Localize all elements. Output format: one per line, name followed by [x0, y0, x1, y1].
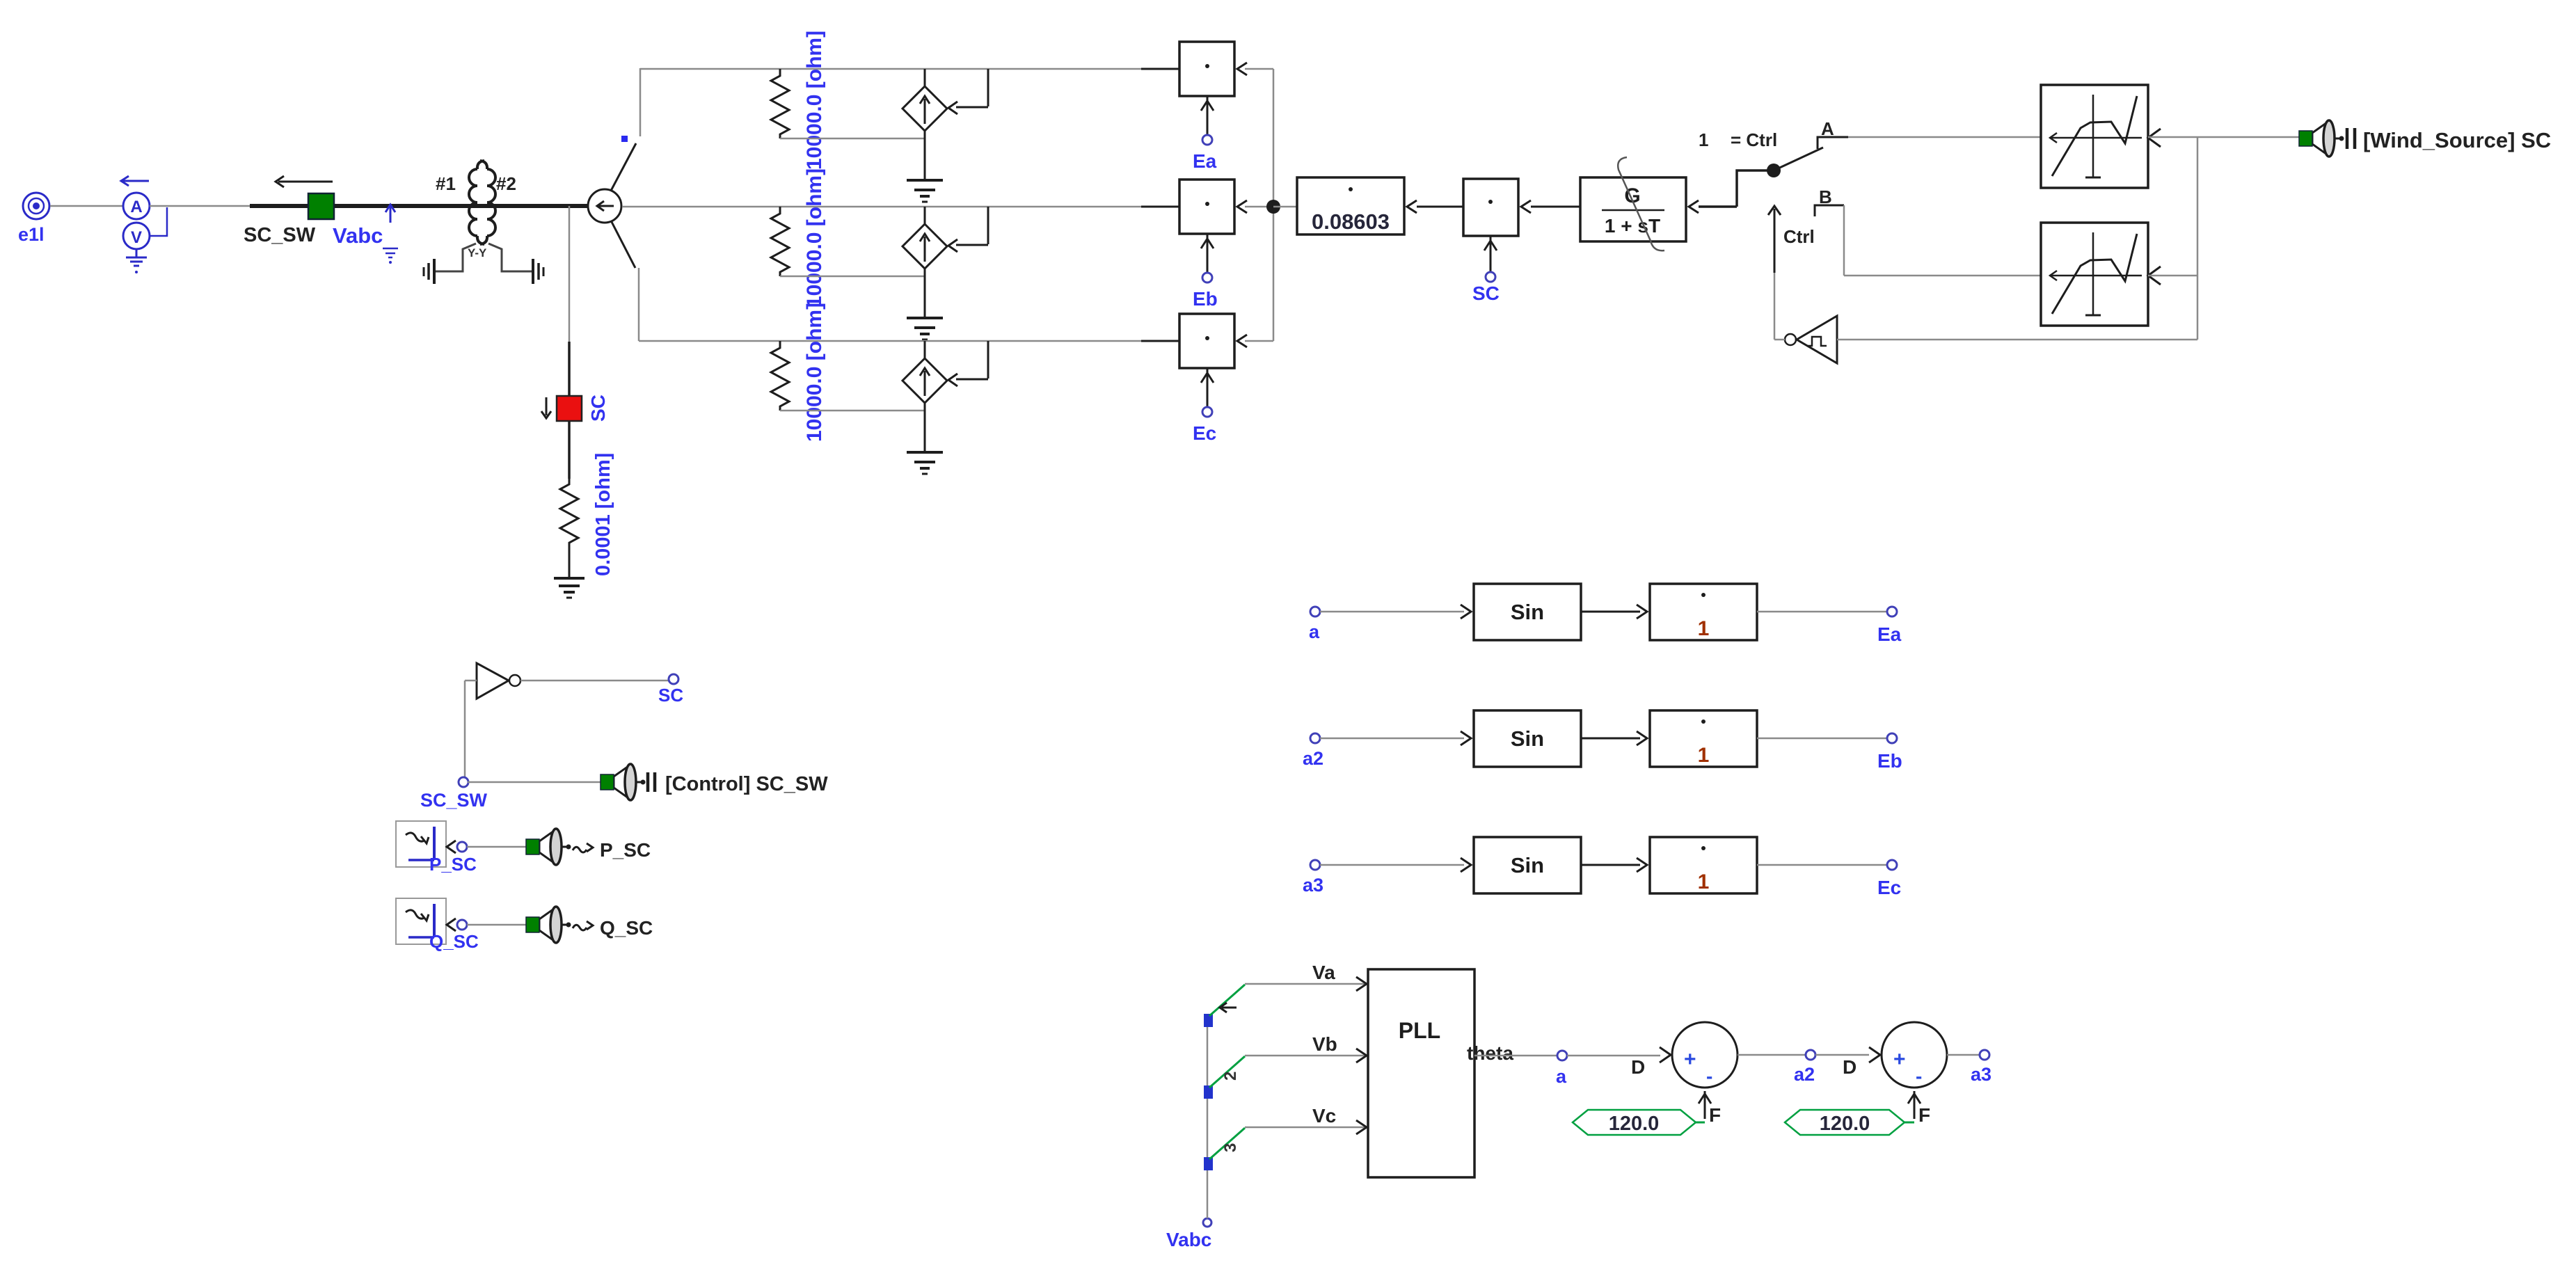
- wire: [568, 342, 571, 396]
- svg-text:2: 2: [1221, 1072, 1240, 1081]
- svg-text:SC: SC: [658, 685, 683, 706]
- wire: [1848, 136, 2041, 138]
- wire: [1320, 858, 1471, 872]
- wire: [468, 781, 601, 783]
- multiplier by 1 (Ea): [1650, 584, 1757, 640]
- svg-text:Sin: Sin: [1511, 853, 1544, 877]
- wire: [569, 206, 571, 342]
- svg-text:120.0: 120.0: [1609, 1113, 1660, 1135]
- svg-text:Vabc: Vabc: [333, 223, 383, 248]
- node SC: [658, 674, 683, 706]
- node SC_SW: [420, 777, 488, 811]
- wire: [638, 268, 640, 341]
- radio link tag Q_SC: [526, 907, 653, 943]
- svg-text:10000.0 [ohm]: 10000.0 [ohm]: [803, 168, 826, 308]
- svg-text:+: +: [1684, 1048, 1696, 1071]
- wire: [1815, 1047, 1880, 1063]
- wire: [1273, 206, 1297, 208]
- contact B: [1815, 186, 1844, 216]
- svg-text:P_SC: P_SC: [429, 854, 477, 875]
- current source I1: [903, 69, 947, 180]
- svg-text:e1l: e1l: [18, 224, 45, 245]
- transformer neutral lead right: [488, 244, 532, 271]
- export tag [Control] SC_SW: [601, 764, 828, 800]
- wire: [780, 410, 925, 412]
- ground: [554, 578, 585, 598]
- svg-text:0.0001 [ohm]: 0.0001 [ohm]: [592, 453, 614, 576]
- ground: [126, 249, 147, 273]
- label Vc: [1312, 1105, 1336, 1127]
- source e1l: [18, 193, 49, 245]
- multiplier M3: [1179, 314, 1247, 407]
- svg-text:PLL: PLL: [1399, 1018, 1440, 1043]
- svg-text:Q_SC: Q_SC: [600, 917, 653, 939]
- wire: [1320, 605, 1471, 619]
- node Q_SC: [447, 918, 467, 931]
- breaker SC_SW: [244, 176, 334, 246]
- multiplier by 1 (Ec): [1650, 837, 1757, 893]
- wire rail phase b: [622, 206, 1179, 208]
- svg-text:-: -: [1916, 1065, 1922, 1087]
- import tag [Wind_Source] SC: [2299, 120, 2551, 157]
- wire: [780, 138, 925, 140]
- svg-text:-: -: [1706, 1065, 1712, 1087]
- contact A: [1818, 118, 1848, 149]
- svg-text:SC: SC: [1472, 283, 1500, 304]
- svg-text:#1: #1: [436, 173, 456, 194]
- node a2: [1794, 1050, 1815, 1085]
- wire: [1757, 738, 1887, 740]
- svg-text:Vc: Vc: [1312, 1105, 1336, 1127]
- svg-text:P_SC: P_SC: [600, 839, 651, 861]
- label theta: [1467, 1042, 1513, 1064]
- wire: [1245, 977, 1368, 991]
- gain 0.08603: [1297, 177, 1417, 234]
- ground: [907, 318, 943, 340]
- svg-text:theta: theta: [1467, 1042, 1513, 1064]
- node Ea: [1193, 135, 1217, 172]
- svg-text:1: 1: [1698, 617, 1710, 640]
- node switch position: [621, 136, 628, 142]
- wire control drop: [948, 207, 988, 252]
- svg-text:1: 1: [1698, 870, 1710, 893]
- svg-text:10000.0 [ohm]: 10000.0 [ohm]: [803, 31, 826, 170]
- svg-text:3: 3: [1221, 1143, 1240, 1152]
- svg-text:Vb: Vb: [1312, 1033, 1337, 1055]
- wire: [1245, 68, 1273, 70]
- svg-text:D: D: [1843, 1056, 1857, 1078]
- transfer function G/(1+sT): [1580, 157, 1686, 250]
- wire: [1245, 1049, 1368, 1063]
- constant 120.0: [1573, 1110, 1705, 1135]
- label Va: [1312, 962, 1335, 983]
- node Ea: [1877, 607, 1902, 645]
- wire: [1837, 339, 2197, 341]
- radio link tag P_SC: [526, 829, 651, 865]
- wire bus vertical: [1273, 69, 1275, 341]
- wire: [780, 276, 925, 278]
- switch two-position Ctrl: [1699, 129, 1823, 177]
- wire control drop: [948, 69, 988, 114]
- breaker SC: [541, 395, 609, 422]
- resistor R2 10000.0 ohm: [771, 168, 826, 308]
- voltmeter V: [123, 223, 150, 249]
- node a2: [1303, 733, 1323, 769]
- svg-text:SC_SW: SC_SW: [244, 224, 316, 246]
- wire: [467, 846, 526, 848]
- Sin block (a): [1474, 584, 1581, 640]
- resistor R1 10000.0 ohm: [771, 31, 826, 170]
- multiplier M2: [1179, 180, 1247, 273]
- wire: [1245, 340, 1273, 342]
- svg-text:V: V: [131, 228, 142, 247]
- svg-text:Q_SC: Q_SC: [429, 931, 479, 952]
- wire: [1689, 170, 1767, 213]
- svg-text:Ea: Ea: [1193, 150, 1217, 172]
- svg-text:1: 1: [1698, 744, 1710, 767]
- svg-text:a3: a3: [1303, 875, 1323, 896]
- node a: [1556, 1051, 1567, 1087]
- wire: [1738, 1054, 1806, 1056]
- plot monitor P_SC: [396, 821, 477, 875]
- wire: [50, 205, 123, 207]
- svg-text:Sin: Sin: [1511, 600, 1544, 624]
- svg-text:120.0: 120.0: [1820, 1113, 1870, 1135]
- node Vabc: [1166, 1218, 1211, 1250]
- wire bus: [2197, 137, 2199, 340]
- switch arm lower: [611, 221, 635, 268]
- svg-text:Ctrl: Ctrl: [1783, 226, 1815, 247]
- wire: [2148, 136, 2299, 138]
- svg-text:Vabc: Vabc: [1166, 1229, 1211, 1250]
- wire: [1320, 731, 1471, 745]
- svg-text:SC_SW: SC_SW: [420, 790, 488, 811]
- wire: [1417, 206, 1463, 208]
- wire rail phase a: [640, 68, 1179, 70]
- svg-text:A: A: [130, 198, 142, 216]
- svg-text:a2: a2: [1794, 1064, 1815, 1085]
- svg-text:1: 1: [1699, 129, 1708, 150]
- svg-text:a: a: [1556, 1066, 1567, 1087]
- svg-text:a3: a3: [1971, 1064, 1991, 1085]
- wire: [1531, 206, 1580, 208]
- svg-text:#2: #2: [496, 173, 516, 194]
- svg-text:0.08603: 0.08603: [1312, 209, 1390, 234]
- svg-text:A: A: [1821, 118, 1834, 139]
- summing junction SUM2: [1843, 1022, 1947, 1126]
- node Ec: [1193, 407, 1216, 444]
- node Ec: [1877, 860, 1901, 898]
- svg-text:10000.0 [ohm]: 10000.0 [ohm]: [803, 303, 826, 442]
- svg-text:a: a: [1309, 621, 1320, 642]
- phase tap Vb: [1204, 1056, 1245, 1099]
- PLL block: [1368, 969, 1474, 1177]
- wire: [1245, 1120, 1368, 1134]
- switch S1: [588, 189, 621, 223]
- inverter U1: [477, 663, 520, 699]
- wire: [1757, 864, 1887, 866]
- ground: [424, 259, 434, 284]
- svg-text:B: B: [1819, 186, 1832, 207]
- wire: [2148, 275, 2197, 277]
- wire: [520, 680, 669, 682]
- ammeter A: [121, 176, 150, 219]
- node Eb: [1877, 733, 1902, 772]
- svg-text:= Ctrl: = Ctrl: [1731, 129, 1777, 150]
- wire: [1474, 1055, 1557, 1057]
- resistor 0.0001 ohm: [560, 453, 614, 576]
- svg-text:Ea: Ea: [1877, 623, 1902, 645]
- wire: [1947, 1054, 1980, 1056]
- wire: [639, 68, 642, 136]
- voltmeter Vabc: [333, 205, 398, 264]
- node a: [1309, 607, 1320, 642]
- node a3: [1971, 1050, 1991, 1085]
- svg-text:Eb: Eb: [1877, 750, 1902, 772]
- svg-text:F: F: [1918, 1104, 1930, 1126]
- svg-text:a2: a2: [1303, 748, 1323, 769]
- summing junction SUM1: [1631, 1022, 1738, 1126]
- Ctrl pointer: [1768, 206, 1815, 340]
- svg-text:[Control] SC_SW: [Control] SC_SW: [665, 773, 828, 795]
- wire: [150, 205, 252, 207]
- switch arm upper: [611, 143, 636, 191]
- svg-text:D: D: [1631, 1056, 1645, 1078]
- svg-text:Y-Y: Y-Y: [468, 246, 487, 260]
- node Eb: [1193, 273, 1218, 310]
- node a3: [1303, 860, 1323, 896]
- wire: [568, 421, 571, 479]
- junction: [1266, 200, 1280, 214]
- wire: [465, 681, 477, 778]
- Sin block (a2): [1474, 710, 1581, 767]
- wire: [1757, 611, 1887, 613]
- svg-text:Eb: Eb: [1193, 288, 1218, 310]
- wire: [467, 924, 526, 926]
- multiplier M1: [1179, 42, 1247, 135]
- phase tap Vc: [1204, 1128, 1245, 1170]
- wire: [569, 547, 571, 578]
- svg-text:Ec: Ec: [1877, 877, 1901, 898]
- wire: [1567, 1047, 1671, 1063]
- wire rail phase c: [639, 340, 1179, 342]
- wire: [1844, 205, 2041, 276]
- wire: [1245, 206, 1273, 208]
- constant 120.0: [1785, 1110, 1914, 1135]
- svg-text:Sin: Sin: [1511, 726, 1544, 751]
- node SC: [1472, 272, 1500, 304]
- multiplier M4: [1463, 179, 1531, 272]
- plot monitor Q_SC: [396, 898, 479, 952]
- phase tap Va: [1204, 985, 1245, 1027]
- nonlinear transfer block NL2: [2041, 223, 2161, 326]
- ground: [907, 180, 943, 202]
- svg-text:Va: Va: [1312, 962, 1335, 983]
- nonlinear transfer block NL1: [2041, 85, 2161, 188]
- label Vb: [1312, 1033, 1337, 1055]
- wire bus: [250, 204, 588, 208]
- transformer winding #2: [480, 161, 516, 244]
- resistor R3 10000.0 ohm: [771, 303, 826, 442]
- multiplier by 1 (Eb): [1650, 710, 1757, 767]
- wire control drop: [948, 341, 988, 386]
- current source I2: [903, 207, 947, 318]
- wire: [150, 207, 167, 236]
- svg-text:Ec: Ec: [1193, 422, 1216, 444]
- ground: [533, 259, 543, 284]
- node P_SC: [447, 841, 467, 853]
- current source I3: [903, 341, 947, 452]
- svg-text:+: +: [1893, 1048, 1906, 1071]
- wire: [1581, 731, 1647, 745]
- wire riser: [1207, 1017, 1209, 1218]
- inverter U2: [1774, 316, 1837, 363]
- transformer neutral lead left: [436, 244, 487, 271]
- svg-text:F: F: [1709, 1104, 1721, 1126]
- svg-text:[Wind_Source] SC: [Wind_Source] SC: [2363, 128, 2551, 152]
- wire: [1581, 605, 1647, 619]
- svg-text:1 + sT: 1 + sT: [1605, 215, 1660, 237]
- wire: [1581, 858, 1647, 872]
- ground: [907, 452, 943, 474]
- Sin block (a3): [1474, 837, 1581, 893]
- svg-text:SC: SC: [587, 395, 609, 422]
- transformer winding #1: [436, 161, 484, 244]
